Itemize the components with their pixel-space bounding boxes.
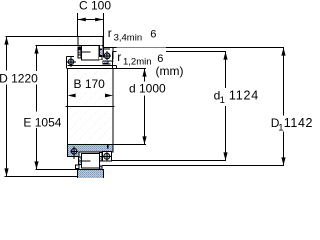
hatch bleed left of lower outer ring [66, 171, 78, 177]
E dim arrow up [34, 46, 38, 54]
E bottom extension line [36, 169, 78, 171]
bore box border [68, 69, 114, 145]
D bottom extension line [5, 176, 78, 178]
svg-text:1: 1 [220, 95, 225, 106]
bore bottom line with d extension [68, 144, 147, 146]
centerline through bore [66, 106, 115, 108]
d dimension line [144, 69, 146, 82]
E top extension / raceway line [36, 45, 104, 47]
svg-text:1142: 1142 [284, 116, 313, 130]
left cage blue block lower, beside lower roller [79, 161, 82, 165]
D dim arrow up [4, 37, 8, 45]
upper roller center tick [82, 51, 91, 53]
upper-left cage L lines [67, 56, 74, 58]
svg-text:r: r [117, 50, 121, 64]
C dim arrows (outward) [78, 18, 86, 22]
svg-text:B 170: B 170 [74, 77, 106, 91]
faint hatch bleed left of outer ring [56, 37, 78, 45]
d dim arrow down [142, 136, 146, 144]
label mask r1,2 [117, 48, 167, 66]
B dimension line [68, 95, 114, 97]
upper right cage column [99, 45, 103, 60]
C dimension line [78, 19, 103, 21]
lower-right cage box with symbol [103, 152, 112, 162]
arrowheads [4, 18, 285, 177]
D1 dim arrow down [281, 157, 285, 165]
D dim arrow down [4, 168, 8, 176]
upper-right cage lines [109, 60, 114, 62]
right cage blue block beside lower roller [100, 157, 103, 162]
outer ring upper section sides [77, 37, 79, 46]
upper-left cage symbol [66, 57, 76, 67]
D1 bottom extension line [102, 165, 284, 167]
svg-text:C 100: C 100 [79, 0, 111, 13]
bore box (hatched) [68, 69, 113, 144]
svg-text:1: 1 [278, 122, 283, 133]
right cage blue block below lower roller [100, 166, 103, 170]
bore top line with d extension [68, 68, 147, 70]
C dimension extension line left [77, 13, 79, 37]
D1 dimension line [283, 48, 285, 116]
d1 dim arrow up [223, 52, 227, 60]
lower inner ring band (stepped) [68, 145, 114, 157]
left cage blue block upper, beside lower roller [79, 157, 82, 161]
d1 dim arrow down [223, 152, 227, 160]
svg-text:(mm): (mm) [156, 64, 184, 78]
C dimension extension line right [103, 13, 105, 58]
d1 bottom extension line [112, 160, 227, 162]
svg-text:r: r [108, 26, 112, 40]
d1 top extension line [113, 51, 227, 53]
vertical link line for d1 extension [112, 52, 114, 69]
lower outer ring band [78, 170, 104, 180]
E dimension line [36, 46, 38, 72]
D dimension line [6, 37, 8, 71]
svg-text:d 1000: d 1000 [129, 82, 166, 96]
upper cage lower rail line [67, 48, 117, 69]
lower-left cage symbol [71, 147, 79, 160]
svg-text:6: 6 [150, 29, 156, 41]
right cage white block beside lower roller [100, 153, 103, 157]
cage box below upper-right symbol [102, 61, 108, 64]
svg-text:1,2min: 1,2min [123, 57, 152, 68]
upper roller [82, 46, 100, 61]
d1 dimension line [225, 52, 227, 89]
OD line / D top extension line [6, 36, 104, 38]
white cage notch left of lower roller [76, 165, 80, 169]
upper left cage column [78, 46, 82, 58]
E dim arrow down [34, 161, 38, 169]
outer ring upper section (hatched) [78, 37, 103, 45]
svg-text:D 1220: D 1220 [0, 72, 38, 86]
B dim arrows (outward) [68, 94, 76, 98]
d dim arrow up [142, 69, 146, 77]
svg-text:1124: 1124 [229, 88, 259, 102]
D1 dim arrow up [281, 48, 285, 56]
lower roller center tick [82, 160, 91, 162]
D1 top extension line [104, 47, 285, 49]
svg-text:3,4min: 3,4min [114, 33, 143, 44]
cage bar tick in lower band [107, 145, 109, 149]
svg-text:E 1054: E 1054 [23, 115, 61, 129]
upper-right cage symbol [103, 51, 112, 60]
lower roller [82, 154, 100, 169]
